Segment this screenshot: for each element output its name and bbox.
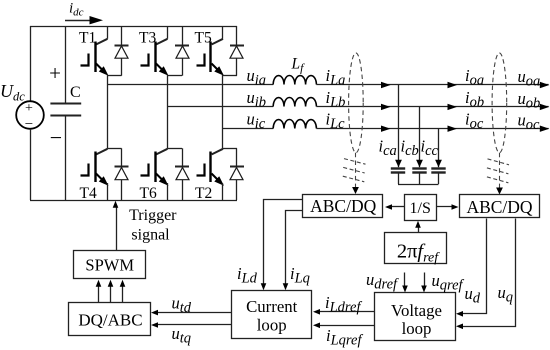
wire 1/S to ABC/DQ (voltage)	[436, 206, 453, 208]
wire lower emitter to bottom rail	[222, 183, 224, 200]
diode D2 (antiparallel with T2)	[236, 148, 238, 167]
wire phase b from bridge to filter	[168, 106, 274, 108]
wire phase b to output	[316, 106, 548, 108]
transistor T2 (IGBT)	[222, 75, 224, 149]
svg-text:C: C	[70, 84, 81, 101]
svg-text:uq: uq	[498, 283, 514, 306]
svg-text:Voltage: Voltage	[391, 301, 442, 320]
svg-text:SPWM: SPWM	[85, 256, 134, 275]
block Current loop	[232, 291, 312, 339]
wire top DC rail	[30, 26, 237, 28]
diode D4 (antiparallel with T4)	[121, 148, 123, 167]
svg-text:ABC/DQ: ABC/DQ	[466, 197, 532, 217]
svg-text:iLdref: iLdref	[325, 293, 362, 316]
transistor T6 (IGBT)	[167, 75, 169, 149]
capacitor Ca (filter, phase a)	[398, 85, 400, 167]
wire phase c to output	[316, 128, 548, 130]
wire iLdref (Voltage loop to Current loop)	[318, 311, 375, 313]
wire 1/S to ABC/DQ (current)	[391, 206, 405, 208]
svg-text:iLq: iLq	[290, 264, 310, 287]
wire lower emitter to bottom rail	[107, 183, 109, 200]
wire lower emitter to bottom rail	[167, 183, 169, 200]
svg-text:ud: ud	[465, 284, 481, 307]
wire 2-pi-f-ref to 1/S	[418, 227, 420, 234]
transistor T1 (IGBT)	[107, 26, 109, 39]
svg-text:+: +	[49, 61, 61, 85]
svg-text:−: −	[25, 117, 33, 133]
svg-text:uob: uob	[518, 89, 541, 112]
svg-text:uoc: uoc	[518, 111, 541, 134]
block DQ/ABC	[69, 303, 151, 336]
svg-text:+: +	[25, 101, 33, 116]
svg-text:icb: icb	[401, 137, 419, 160]
diode D6 (antiparallel with T6)	[182, 148, 184, 167]
current arrow idc	[65, 20, 91, 22]
inductor Lf phase c	[273, 120, 316, 129]
block ABC/DQ (voltage transform) U3	[460, 195, 540, 218]
wire upper emitter to diode junction	[223, 75, 237, 77]
inductor Lf phase b	[273, 98, 316, 107]
wire capacitor top lead	[65, 26, 67, 103]
wire utq (Current loop to DQ/ABC)	[157, 324, 232, 326]
wire trigger signal (SPWM to bridge)	[116, 205, 118, 251]
wire upper emitter to diode junction	[108, 75, 122, 77]
svg-text:T5: T5	[195, 30, 212, 47]
wire iLq (ABC/DQ to Current loop)	[286, 211, 303, 285]
diode D5 (antiparallel with T5)	[236, 26, 238, 45]
wire upper emitter to diode junction	[168, 75, 183, 77]
wire capacitor star bus	[398, 184, 439, 186]
svg-text:T6: T6	[140, 185, 157, 202]
svg-text:T2: T2	[195, 185, 212, 202]
block 2-pi-f-ref (reference frequency)	[385, 233, 447, 264]
wire DQ/ABC to SPWM	[110, 285, 112, 303]
svg-text:Current: Current	[246, 297, 298, 316]
wire source bottom lead	[30, 129, 32, 200]
current sensor (dashed ellipse, inductor currents)	[349, 53, 364, 153]
svg-text:T1: T1	[79, 30, 96, 47]
transistor T5 (IGBT)	[222, 26, 224, 39]
block Voltage loop	[375, 293, 456, 341]
measurement link to ABC/DQ (voltage)	[499, 153, 501, 189]
wire lower collector to diode junction	[108, 148, 122, 150]
wire bottom DC rail	[30, 200, 237, 202]
svg-text:−: −	[50, 125, 62, 150]
voltage source Udc	[16, 101, 44, 129]
wire ud (ABC/DQ to Voltage loop)	[461, 219, 487, 314]
wire capacitor bottom lead	[65, 116, 67, 200]
wire DQ/ABC to SPWM	[98, 285, 100, 303]
wire iLd (ABC/DQ to Current loop)	[264, 200, 303, 285]
measurement link to ABC/DQ (current)	[355, 153, 357, 188]
wire lower collector to diode junction	[223, 148, 237, 150]
wire DQ/ABC to SPWM	[122, 285, 124, 303]
svg-text:uoa: uoa	[518, 67, 541, 90]
wire utd (Current loop to DQ/ABC)	[157, 312, 232, 314]
svg-text:Lf: Lf	[291, 56, 306, 75]
capacitor Cb (filter, phase b)	[419, 107, 421, 167]
svg-text:uqref: uqref	[432, 271, 465, 294]
arrow udref into Voltage loop	[404, 273, 406, 288]
wire phase a to output	[316, 84, 548, 86]
svg-text:utq: utq	[172, 324, 192, 347]
wire iLqref (Voltage loop to Current loop)	[318, 325, 375, 327]
wire lower collector to diode junction	[168, 148, 183, 150]
svg-text:signal: signal	[131, 227, 170, 244]
transistor T3 (IGBT)	[167, 26, 169, 39]
wire uq (ABC/DQ to Voltage loop)	[461, 219, 516, 327]
svg-text:T3: T3	[139, 30, 156, 47]
diode D3 (antiparallel with T3)	[182, 26, 184, 45]
svg-text:icc: icc	[421, 137, 439, 160]
block 1/S (integrator) U2	[405, 195, 437, 221]
capacitor Cc (filter, phase c)	[438, 129, 440, 168]
svg-text:iLqref: iLqref	[326, 326, 363, 349]
svg-text:ABC/DQ: ABC/DQ	[310, 196, 376, 216]
svg-text:Udc: Udc	[0, 81, 25, 104]
block SPWM	[74, 251, 146, 279]
svg-text:idc: idc	[69, 1, 84, 19]
svg-text:1/S: 1/S	[410, 200, 431, 217]
svg-text:loop: loop	[257, 316, 287, 335]
capacitor C	[50, 103, 81, 105]
voltage sensor (dashed ellipse, output voltages)	[492, 53, 507, 153]
wire phase a from bridge to filter	[108, 84, 274, 86]
diode D1 (antiparallel with T1)	[121, 26, 123, 45]
svg-text:iLd: iLd	[237, 264, 258, 287]
svg-text:ica: ica	[379, 137, 397, 160]
svg-text:DQ/ABC: DQ/ABC	[78, 311, 142, 330]
block ABC/DQ (current transform) U1	[303, 195, 383, 218]
wire source top lead	[30, 26, 32, 102]
arrow uqref into Voltage loop	[424, 273, 426, 288]
inductor Lf phase a	[273, 76, 316, 85]
transistor T4 (IGBT)	[107, 75, 109, 149]
svg-text:udref: udref	[366, 270, 399, 293]
svg-text:Trigger: Trigger	[129, 207, 177, 224]
svg-text:loop: loop	[402, 319, 432, 338]
svg-text:T4: T4	[80, 185, 97, 202]
wire phase c from bridge to filter	[223, 128, 273, 130]
